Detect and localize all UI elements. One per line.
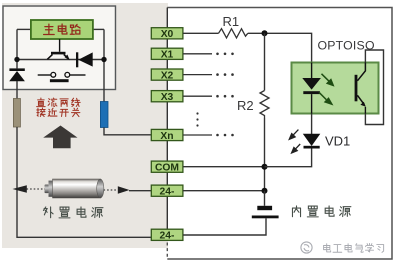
svg-text:X3: X3 [161, 92, 174, 103]
node 24- [262, 188, 268, 194]
transistor Q1 [59, 39, 61, 52]
svg-text:24-: 24- [160, 231, 175, 242]
wire node to internal battery [264, 191, 266, 206]
VD1 light arrows [289, 130, 300, 153]
terminal X2 [151, 69, 183, 80]
wire: arrow to 24- terminal [129, 190, 151, 192]
input stub wires X1..Xn [183, 53, 212, 55]
wire 24- upper to node [183, 190, 265, 192]
wire R2 to COM node [264, 118, 266, 191]
terminal 24- lower [151, 229, 183, 240]
terminal rail vertical [166, 8, 168, 242]
wire: lead from main circuit box right [93, 28, 104, 30]
continuation dots rows [196, 53, 233, 137]
terminal X0 [151, 28, 183, 39]
terminal X1 [151, 48, 183, 59]
proximity switch enclosure interior [4, 7, 115, 89]
main circuit green box 主电路 [31, 20, 93, 39]
wire R1 to LED [248, 33, 312, 62]
wire: horizontal internal bus [17, 59, 104, 61]
wire: left vertical from main-circuit lead down [16, 29, 18, 68]
big up arrow [43, 126, 77, 149]
terminal COM [151, 161, 183, 172]
svg-text:R1: R1 [223, 14, 240, 29]
diode D2 (points left) [76, 52, 78, 67]
wire battery to 24- lower [183, 218, 266, 235]
phototransistor inside opto [355, 75, 358, 102]
LED inside opto [311, 63, 313, 79]
terminal lug (blue) [100, 102, 108, 128]
diode D1 (left branch, points up) [9, 68, 24, 71]
wire node to R2 [264, 33, 266, 90]
switch S1 [38, 74, 51, 76]
wire COM to node [183, 166, 265, 168]
wire X0 to R1 [183, 32, 219, 34]
proximity box outline [3, 6, 116, 90]
wire: lead from main circuit box left [17, 28, 31, 30]
resistor R1 [219, 29, 248, 38]
node left junction [14, 57, 19, 62]
terminal lug (tan) [13, 99, 20, 128]
terminal Xn [151, 129, 183, 140]
resistor R2 [260, 91, 269, 119]
label 直流两线/接近开关 (red) [37, 98, 81, 117]
wire: blue lug to Xn [104, 128, 151, 135]
light arrows [319, 74, 333, 104]
node COM [262, 164, 268, 170]
svg-text:X2: X2 [161, 70, 174, 81]
label 外置电源 [43, 207, 103, 218]
internal battery symbol [257, 206, 272, 210]
svg-text:X0: X0 [161, 29, 174, 40]
LED VD1 [311, 114, 313, 135]
node right junction [101, 57, 106, 62]
terminal 24- upper [151, 185, 183, 196]
watermark logo [301, 242, 312, 253]
svg-text:VD1: VD1 [325, 133, 350, 148]
svg-text:R2: R2 [237, 98, 254, 113]
svg-text:Xn: Xn [160, 131, 173, 142]
gray panel (left region) [2, 3, 168, 248]
terminal X3 [151, 91, 183, 102]
left edge lower dashed segment [166, 243, 168, 260]
svg-text:COM: COM [155, 163, 179, 174]
PLC enclosure [167, 8, 392, 260]
collector/emitter return bracket [365, 50, 383, 125]
svg-text:24-: 24- [160, 187, 175, 198]
node at R2 top [262, 30, 268, 36]
wire: right vertical down to blue terminal [103, 29, 105, 101]
label 内置电源 [292, 206, 350, 217]
wire: left drop to bottom rail [17, 127, 151, 237]
terminal boxes [151, 28, 183, 241]
dashed flow arrows at battery [27, 188, 46, 190]
optocoupler U1 box [292, 63, 379, 114]
svg-text:X1: X1 [161, 50, 174, 61]
